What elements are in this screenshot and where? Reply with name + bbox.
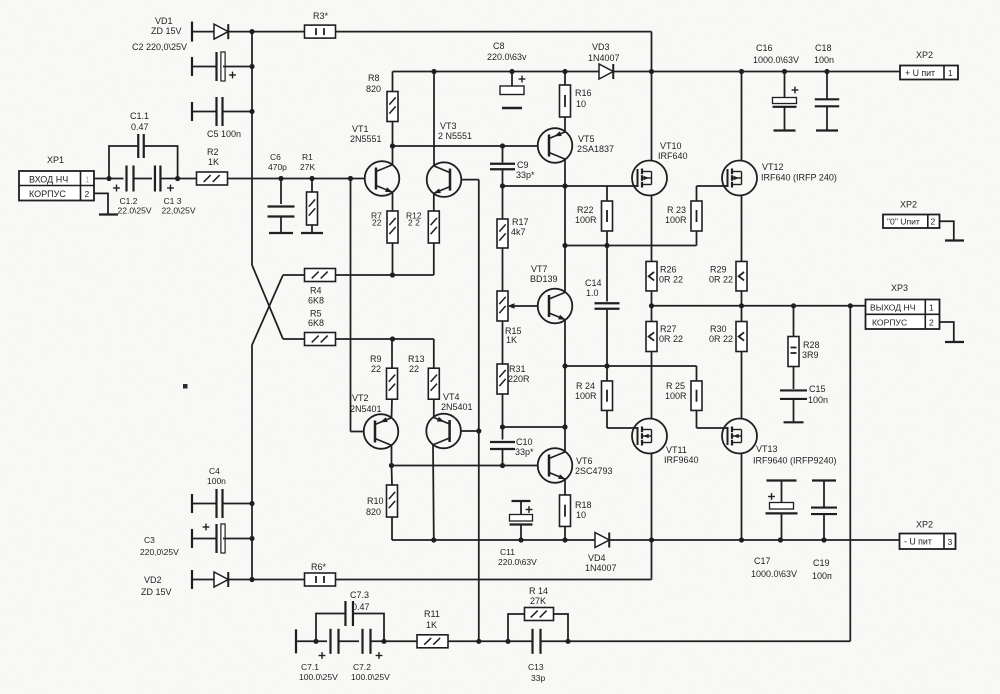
svg-text:220,0\25V: 220,0\25V (140, 547, 179, 557)
svg-text:C1 3: C1 3 (164, 196, 182, 206)
svg-text:R10: R10 (367, 496, 384, 506)
svg-text:C11: C11 (500, 547, 515, 557)
svg-text:VT10: VT10 (660, 141, 682, 151)
svg-text:33p: 33p (531, 673, 545, 683)
svg-text:C13: C13 (528, 662, 544, 672)
svg-text:22,0\25V: 22,0\25V (162, 206, 196, 216)
svg-text:2 N5551: 2 N5551 (438, 131, 472, 141)
svg-text:2: 2 (931, 217, 936, 227)
svg-text:22.0\25V: 22.0\25V (118, 206, 152, 216)
svg-text:1: 1 (85, 176, 90, 185)
svg-text:2N5401: 2N5401 (350, 404, 382, 414)
svg-text:IRF640 (IRFP 240): IRF640 (IRFP 240) (761, 173, 837, 183)
svg-text:2SC4793: 2SC4793 (575, 466, 613, 476)
svg-text:6K8: 6K8 (308, 296, 324, 306)
svg-text:C7.1: C7.1 (301, 662, 319, 672)
svg-text:1000.0\63V: 1000.0\63V (753, 55, 799, 65)
svg-text:C14: C14 (585, 278, 602, 288)
svg-text:VT3: VT3 (440, 121, 457, 131)
svg-text:1N4007: 1N4007 (588, 53, 620, 63)
svg-text:1.0: 1.0 (586, 288, 599, 298)
svg-text:2 2: 2 2 (408, 218, 420, 228)
svg-text:R 25: R 25 (666, 381, 685, 391)
svg-text:22: 22 (371, 364, 381, 374)
svg-text:R1: R1 (302, 152, 313, 162)
svg-text:VT2: VT2 (352, 393, 369, 403)
svg-text:100.0\25V: 100.0\25V (299, 672, 338, 682)
svg-text:VT11: VT11 (666, 445, 687, 455)
svg-text:100п: 100п (812, 571, 832, 581)
svg-text:C5 100n: C5 100n (207, 129, 241, 139)
svg-text:100R: 100R (575, 215, 597, 225)
svg-text:R3*: R3* (313, 11, 329, 21)
svg-text:100.0\25V: 100.0\25V (351, 672, 390, 682)
svg-text:C7.2: C7.2 (353, 662, 371, 672)
svg-text:R31: R31 (509, 364, 526, 374)
svg-text:R8: R8 (368, 73, 380, 83)
svg-text:100R: 100R (665, 391, 687, 401)
svg-text:КОРПУС: КОРПУС (29, 189, 66, 199)
svg-text:1: 1 (948, 68, 953, 78)
svg-text:XP3: XP3 (891, 283, 908, 293)
svg-text:2: 2 (929, 318, 934, 328)
svg-text:0.47: 0.47 (352, 602, 370, 612)
svg-text:R16: R16 (575, 88, 592, 98)
svg-text:VT7: VT7 (531, 264, 548, 274)
svg-text:IRF640: IRF640 (658, 151, 688, 161)
svg-text:100R: 100R (665, 215, 687, 225)
svg-text:220.0\63V: 220.0\63V (498, 557, 537, 567)
svg-text:3R9: 3R9 (802, 350, 819, 360)
svg-text:R22: R22 (577, 205, 594, 215)
svg-text:22: 22 (372, 218, 382, 228)
svg-text:820: 820 (366, 84, 381, 94)
svg-text:ВЫХОД НЧ: ВЫХОД НЧ (870, 303, 916, 313)
svg-text:C18: C18 (815, 43, 832, 53)
svg-text:C15: C15 (809, 384, 826, 394)
svg-text:ZD 15V: ZD 15V (151, 26, 182, 36)
svg-text:R9: R9 (370, 354, 382, 364)
svg-text:1N4007: 1N4007 (585, 563, 617, 573)
svg-text:R 24: R 24 (576, 381, 595, 391)
svg-text:220.0\63v: 220.0\63v (487, 52, 527, 62)
svg-text:6K8: 6K8 (308, 318, 324, 328)
svg-text:C17: C17 (754, 556, 771, 566)
svg-text:R27: R27 (660, 324, 677, 334)
svg-text:IRF9640: IRF9640 (664, 455, 699, 465)
svg-text:0R 22: 0R 22 (709, 275, 733, 285)
svg-text:VT4: VT4 (443, 392, 460, 402)
svg-text:R28: R28 (803, 340, 820, 350)
svg-text:XP2: XP2 (916, 50, 933, 60)
svg-text:C8: C8 (493, 41, 505, 51)
svg-text:100n: 100n (808, 395, 828, 405)
svg-text:R30: R30 (710, 324, 727, 334)
svg-text:33p*: 33p* (515, 447, 534, 457)
svg-text:VD2: VD2 (144, 575, 162, 585)
svg-text:100n: 100n (207, 476, 226, 486)
svg-text:2N5551: 2N5551 (350, 134, 382, 144)
svg-text:- U пит: - U пит (904, 537, 932, 547)
svg-text:ZD 15V: ZD 15V (141, 587, 172, 597)
svg-text:2N5401: 2N5401 (441, 402, 473, 412)
svg-text:C16: C16 (756, 43, 773, 53)
svg-text:10: 10 (576, 510, 586, 520)
svg-text:100n: 100n (814, 55, 834, 65)
svg-text:C1.2: C1.2 (120, 196, 138, 206)
svg-text:R4: R4 (310, 286, 322, 296)
svg-text:R 23: R 23 (667, 205, 686, 215)
svg-text:R18: R18 (575, 500, 592, 510)
svg-text:1000.0\63V: 1000.0\63V (751, 569, 797, 579)
svg-text:VD4: VD4 (588, 553, 606, 563)
svg-text:VT1: VT1 (352, 124, 369, 134)
svg-text:R5: R5 (310, 309, 322, 319)
svg-text:R11: R11 (424, 609, 440, 619)
svg-text:C6: C6 (270, 152, 281, 162)
svg-text:820: 820 (366, 507, 381, 517)
svg-text:R2: R2 (207, 147, 219, 157)
svg-text:470p: 470p (268, 162, 287, 172)
svg-text:2: 2 (85, 189, 90, 199)
svg-text:BD139: BD139 (530, 274, 558, 284)
svg-text:33p*: 33p* (516, 170, 535, 180)
svg-text:R6*: R6* (311, 562, 327, 572)
svg-text:27K: 27K (300, 162, 315, 172)
svg-text:XP2: XP2 (900, 200, 917, 210)
svg-text:VT12: VT12 (762, 162, 784, 172)
svg-text:ВХОД НЧ: ВХОД НЧ (29, 175, 68, 185)
svg-text:R17: R17 (512, 217, 529, 227)
svg-text:1: 1 (929, 303, 934, 313)
svg-text:3: 3 (948, 537, 953, 547)
svg-text:C1.1: C1.1 (130, 111, 149, 121)
svg-text:+ U пит: + U пит (905, 68, 935, 78)
svg-text:C9: C9 (517, 160, 529, 170)
svg-text:IRF9640 (IRFP9240): IRF9640 (IRFP9240) (753, 456, 837, 466)
svg-text:XP1: XP1 (47, 155, 64, 165)
svg-text:22: 22 (409, 364, 419, 374)
svg-text:100R: 100R (575, 391, 597, 401)
svg-text:XP2: XP2 (916, 520, 933, 530)
svg-text:0R 22: 0R 22 (659, 275, 683, 285)
svg-text:0R 22: 0R 22 (659, 334, 683, 344)
svg-text:1K: 1K (208, 157, 219, 167)
svg-text:C4: C4 (209, 466, 220, 476)
svg-text:VT6: VT6 (576, 456, 593, 466)
svg-text:VT5: VT5 (578, 134, 595, 144)
svg-text:27K: 27K (530, 596, 546, 606)
svg-text:220R: 220R (508, 374, 530, 384)
svg-text:КОРПУС: КОРПУС (872, 318, 907, 328)
svg-text:VD3: VD3 (592, 42, 610, 52)
svg-text:2SA1837: 2SA1837 (577, 144, 614, 154)
svg-text:C10: C10 (516, 437, 533, 447)
svg-text:R13: R13 (408, 354, 425, 364)
svg-text:C2 220,0\25V: C2 220,0\25V (132, 42, 187, 52)
svg-text:1K: 1K (426, 620, 437, 630)
svg-text:R29: R29 (710, 265, 727, 275)
svg-text:R 14: R 14 (529, 586, 548, 596)
svg-text:R26: R26 (660, 265, 677, 275)
svg-text:C7.3: C7.3 (350, 590, 369, 600)
svg-text:4k7: 4k7 (511, 227, 526, 237)
svg-text:C3: C3 (144, 535, 155, 545)
svg-text:"0" Uпит: "0" Uпит (887, 217, 920, 227)
svg-text:VT13: VT13 (756, 444, 778, 454)
svg-text:0.47: 0.47 (131, 122, 149, 132)
svg-text:0R 22: 0R 22 (709, 334, 733, 344)
svg-text:C19: C19 (813, 558, 830, 568)
svg-text:VD1: VD1 (155, 16, 173, 26)
svg-text:1K: 1K (506, 335, 517, 345)
svg-text:10: 10 (576, 99, 586, 109)
